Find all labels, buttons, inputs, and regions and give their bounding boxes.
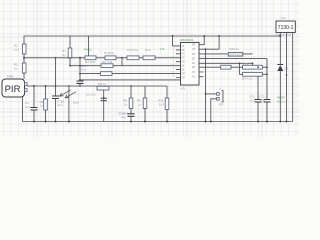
svg-text:#1 R4C: #1 R4C [104, 51, 115, 55]
svg-text:10 1u: 10 1u [277, 100, 285, 104]
resistor R13 [143, 56, 155, 60]
svg-text:2B: 2B [182, 70, 185, 72]
svg-text:47u: 47u [58, 103, 63, 107]
capacitor C7 electrolytic [55, 58, 57, 96]
diode D1 [277, 64, 283, 66]
svg-text:R4(1): R4(1) [84, 48, 92, 52]
svg-text:Ded: Ded [73, 101, 79, 105]
svg-text:1u2: 1u2 [25, 105, 30, 109]
connector JP1 [217, 93, 220, 96]
node dot x239.4 [239, 62, 241, 64]
node dot x286 y75 [286, 74, 288, 76]
wire R1 to R2 [23, 54, 25, 63]
svg-text:(1): (1) [62, 53, 66, 57]
IC left pin numbers [173, 44, 175, 79]
wire 7130 pin3 down [292, 33, 294, 122]
resistor BT4 [243, 72, 263, 76]
wire PIR bottom to ground rail [22, 97, 24, 122]
wire x252.5 down [252, 63, 254, 65]
node dot top rail x219 [218, 35, 220, 37]
resistor R11 [105, 56, 116, 60]
node dot x258 row1 [257, 66, 259, 68]
row y65.7 wire to IC pin6 [70, 65, 176, 67]
svg-text:1u: 1u [40, 104, 44, 108]
svg-text:VS: VS [182, 58, 186, 60]
resistor R12 [127, 56, 139, 60]
resistor R6 [45, 86, 47, 99]
svg-text:VC: VC [182, 54, 186, 56]
svg-text:VS: VS [192, 72, 196, 74]
PIR pin 2 stub [25, 89, 28, 92]
wire PIR out row y86 [27, 85, 167, 87]
node dot x131 y86 [130, 85, 132, 87]
annotation arrows near PIR [60, 90, 71, 96]
svg-text:PIR: PIR [5, 84, 21, 95]
node dot x252.5 y63.3 [252, 62, 254, 64]
svg-text:17u: 17u [81, 68, 86, 72]
node dot x80 y79.9 [79, 79, 81, 81]
capacitor C4 [33, 86, 35, 107]
svg-text:BT4 1u: BT4 1u [242, 77, 252, 81]
wire rail to pin1 [173, 36, 176, 46]
node dot top rail x280 [279, 35, 281, 37]
svg-text:R2/TCH: R2/TCH [127, 48, 138, 52]
svg-text:BISS0001: BISS0001 [180, 38, 194, 42]
node dot rail x210.8 [210, 121, 212, 123]
node dot x267 y74.3 [266, 73, 268, 75]
node dot x205.5 y49.2 [205, 48, 207, 50]
node dot rail x131 [130, 121, 132, 123]
svg-text:OP: OP [182, 77, 186, 79]
svg-text:IC2: IC2 [281, 16, 286, 20]
node dot rail x258 [257, 121, 259, 123]
row2 wire [239, 73, 267, 75]
svg-text:OP: OP [182, 62, 186, 64]
svg-text:RL2: RL2 [145, 48, 151, 52]
wire x122 row to row65 [121, 58, 123, 66]
wire 7130 pin1 down [279, 33, 281, 37]
node dot x45.5 [45, 85, 47, 87]
wire pin3 with resistor R33b [204, 53, 253, 55]
capacitor C2B1N [128, 114, 135, 117]
node dot x80 y86 [79, 85, 81, 87]
node dot x80 y73.6 [79, 73, 81, 75]
resistor R21 [243, 65, 263, 69]
svg-text:RB 1u: RB 1u [98, 82, 107, 86]
node dot rail x280 [279, 121, 281, 123]
svg-text:47u: 47u [121, 116, 126, 120]
wire R2 to PIR [23, 73, 25, 79]
node dot rail x286 [286, 121, 288, 123]
node dot top rail x172 [172, 35, 174, 37]
wire pin4 long to x267 [204, 58, 268, 60]
resistor row y57.8 : R10 [85, 56, 96, 60]
node dot x80 y65.7 [79, 65, 81, 67]
svg-text:1B: 1B [182, 66, 185, 68]
wire pin6 row through resistors [204, 66, 268, 68]
wire JP1 lower feed from rail [211, 99, 217, 122]
row y73.6 wire to IC pin8 [80, 73, 176, 75]
wire rail to row y57.8 at x88.6 [88, 36, 90, 56]
resistor R3 vertical [69, 36, 71, 48]
wire pin1 right to rail x204 [203, 36, 206, 45]
wire pin2 right, corner up x219 [204, 36, 220, 49]
capacitor C3 inline vertical x80 [79, 58, 81, 80]
capacitor CY2 vertical from pin4 wire [266, 59, 268, 100]
svg-text:1u3: 1u3 [159, 103, 164, 107]
node dot x88.6 [88, 56, 90, 58]
svg-text:1u: 1u [14, 67, 18, 71]
node dot rail x145 [144, 121, 146, 123]
ladder left vertical [238, 63, 240, 74]
resistor RU inline row y65.7 [101, 64, 113, 68]
svg-text:103: 103 [250, 99, 255, 103]
svg-text:RU 1u3: RU 1u3 [102, 60, 113, 64]
resistor inline row y73.6 [101, 72, 113, 76]
svg-text:R33 1u: R33 1u [230, 47, 240, 51]
top power rail [24, 36, 280, 44]
svg-text:OP: OP [192, 49, 196, 51]
svg-text:7130-1: 7130-1 [278, 25, 294, 31]
svg-text:OU: OU [192, 77, 196, 79]
node B dot x122 [121, 57, 123, 59]
svg-text:JP1: JP1 [219, 103, 225, 107]
svg-text:104: 104 [260, 99, 265, 103]
IC internal pin names [182, 45, 196, 80]
svg-text:RS: RS [192, 54, 196, 56]
PIR pin 1 stub [25, 83, 28, 86]
main mid rail y57.8 [24, 57, 176, 59]
svg-text:C5 1u2: C5 1u2 [86, 93, 96, 97]
rail node dots [33, 121, 35, 123]
svg-text:VD: VD [192, 45, 196, 47]
resistor R2 [22, 63, 26, 73]
svg-text:1/3: 1/3 [160, 47, 165, 51]
wire 7130 pin2 down [286, 33, 288, 122]
svg-text:2B: 2B [182, 50, 185, 52]
resistor R8 vertical [130, 86, 132, 98]
resistor R9 vertical [144, 86, 146, 98]
svg-text:VR: VR [182, 74, 186, 76]
node dot top rail x204 [203, 35, 205, 37]
wire pin5 to ladder [204, 62, 253, 64]
node dot x80 [79, 57, 81, 59]
bottom ground rail [23, 121, 293, 123]
capacitor CY1 [257, 76, 259, 99]
node dot x70 y65.7 [69, 65, 71, 67]
wire arrows cluster to ground [68, 86, 70, 122]
node A dot [23, 57, 25, 59]
resistor R33b [228, 52, 243, 56]
IC right pin stubs [199, 45, 204, 77]
major grid [0, 0, 300, 137]
node dot rail x267 [266, 121, 268, 123]
row y79.9 wire to IC pin10 [80, 79, 176, 81]
svg-text:1u: 1u [124, 103, 128, 107]
svg-text:1u3: 1u3 [14, 48, 19, 52]
svg-text:GND IN OUT: GND IN OUT [276, 33, 292, 37]
resistor R1 [22, 44, 26, 54]
wire x280 down to diode [279, 36, 281, 65]
wire JP1 upper feed [205, 49, 207, 121]
resistor R20 [221, 65, 231, 69]
node dot x34 [33, 85, 35, 87]
node dot x267 y67.2 [266, 66, 268, 68]
row y86 resistor RB [97, 86, 109, 90]
capacitor C5 [103, 90, 105, 98]
svg-text:DC: DC [192, 59, 196, 61]
svg-text:LP1: LP1 [180, 86, 186, 90]
svg-text:1u: 1u [138, 103, 142, 107]
IC left pin stubs [176, 46, 181, 80]
svg-text:#P4: #P4 [243, 62, 249, 66]
resistor R33 vertical x167 [166, 86, 168, 98]
svg-text:PIR1: PIR1 [7, 75, 14, 79]
